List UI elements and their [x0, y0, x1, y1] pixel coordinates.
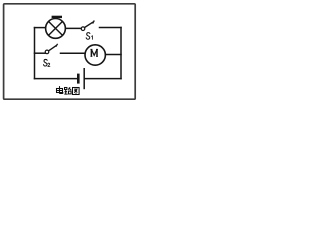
wire right vertical	[120, 28, 122, 79]
switch S2 contact tick	[56, 44, 58, 47]
background	[0, 0, 140, 104]
switch S2 lever	[49, 45, 57, 51]
battery B1 short thick plate	[77, 74, 80, 84]
switch S2 pivot	[45, 50, 49, 54]
border frame	[4, 4, 136, 99]
wire middle branch left	[35, 52, 46, 54]
motor letter M	[90, 49, 98, 56]
battery B1 long thin plate	[83, 68, 85, 89]
caption 路	[64, 87, 71, 94]
lamp top cap	[52, 16, 62, 18]
label S2	[44, 59, 50, 66]
lamp cross	[49, 22, 63, 36]
switch S1 pivot	[81, 27, 85, 31]
wire left vertical	[34, 28, 36, 79]
wire S2 to motor	[61, 52, 85, 54]
caption 图	[73, 88, 80, 95]
switch S1 contact tick	[93, 21, 95, 24]
wire top-left horizontal	[35, 27, 46, 29]
motor U1 circle	[85, 45, 105, 65]
caption 电	[57, 86, 63, 94]
wire bottom left to battery	[35, 78, 77, 80]
label S1	[86, 33, 92, 40]
wire S1 to top-right corner	[100, 27, 122, 29]
switch S1 lever	[85, 22, 94, 28]
lamp L1 circle	[46, 19, 66, 39]
wire battery to bottom-right corner	[85, 78, 121, 80]
wire lamp to switch S1	[66, 27, 81, 29]
wire motor to right vertical	[106, 54, 121, 56]
